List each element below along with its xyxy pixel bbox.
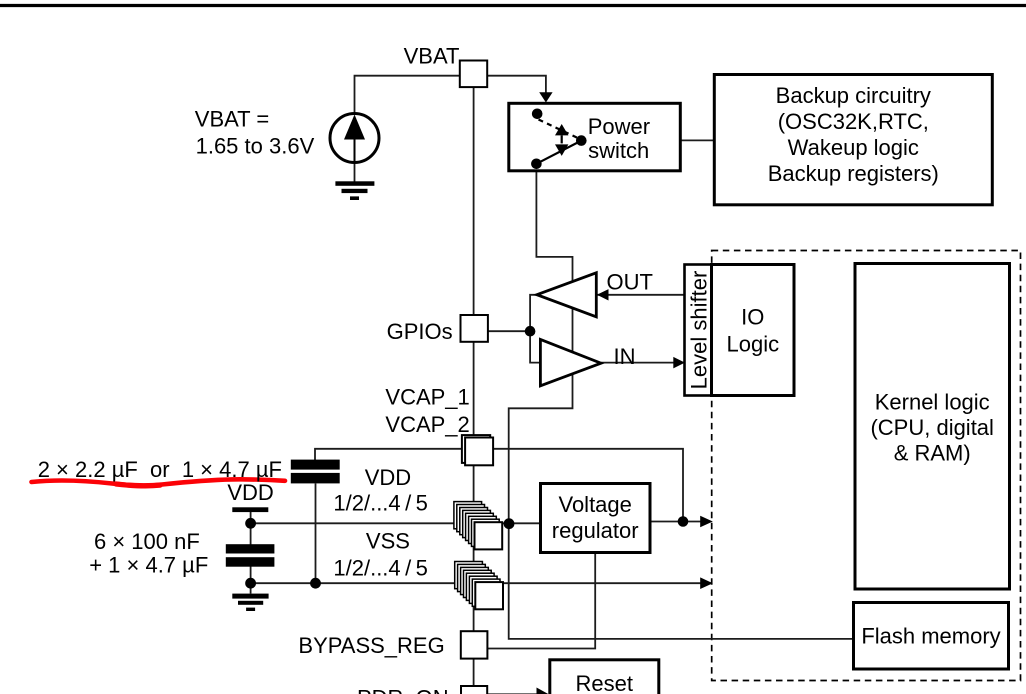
- svg-text:& RAM): & RAM): [894, 441, 971, 466]
- voltage regulator box: [541, 484, 651, 553]
- svg-text:6 × 100 nF: 6 × 100 nF: [94, 529, 200, 554]
- wire VBAT pin to power switch arrow: [488, 76, 546, 99]
- IO logic box: [712, 265, 795, 396]
- wire main pin column: [473, 87, 475, 694]
- svg-text:2 × 2.2 µF or 1 × 4.7 µF: 2 × 2.2 µF or 1 × 4.7 µF: [38, 457, 282, 482]
- power switch box: [509, 103, 681, 171]
- wire VDD rail line: [251, 522, 541, 524]
- junction dot VDD/cap: [245, 518, 256, 529]
- svg-text:OUT: OUT: [607, 270, 653, 295]
- svg-text:Power: Power: [588, 114, 650, 139]
- wire regulator output to kernel arrow: [650, 521, 711, 523]
- svg-text:VSS: VSS: [366, 529, 410, 554]
- svg-text:Kernel logic: Kernel logic: [875, 390, 990, 415]
- arrow VDD into kernel: [700, 516, 713, 528]
- VDD rail bar: [232, 507, 268, 512]
- wire PDR_ON to reset arrow: [488, 693, 537, 694]
- pin PDR_ON: [461, 686, 487, 694]
- svg-text:Level shifter: Level shifter: [687, 271, 712, 390]
- svg-text:VDD: VDD: [227, 480, 273, 505]
- svg-text:(CPU, digital: (CPU, digital: [870, 415, 993, 440]
- capacitor 6x100nF: [226, 544, 275, 567]
- svg-text:IO: IO: [741, 305, 764, 330]
- current source VBAT: [330, 114, 379, 163]
- junction dot regulator out/VCAP: [678, 516, 689, 527]
- arrow into power switch top: [539, 92, 552, 102]
- dashed device boundary box: [712, 251, 1021, 681]
- wire 2.2uF cap to VCAP pin: [315, 449, 462, 460]
- ground (100nF cap): [232, 594, 268, 611]
- wire power switch bottom contact to VDD node: [509, 166, 573, 523]
- wire regulator bottom to BYPASS_REG: [488, 553, 595, 649]
- wire VSS line: [251, 582, 711, 584]
- arrow VSS into kernel: [700, 577, 713, 589]
- junction dot VDD/regulator: [504, 518, 515, 529]
- pin VCAP_1 (front square): [465, 438, 493, 466]
- wire VBAT source to ground: [354, 164, 356, 182]
- svg-text:VCAP_1: VCAP_1: [385, 385, 469, 410]
- svg-text:VBAT: VBAT: [404, 44, 460, 69]
- svg-text:GPIOs: GPIOs: [387, 319, 453, 344]
- svg-text:VDD: VDD: [365, 465, 411, 490]
- svg-text:switch: switch: [588, 138, 649, 163]
- svg-text:Backup circuitry: Backup circuitry: [776, 83, 931, 108]
- pin VCAP_2 (back square): [462, 435, 490, 463]
- ground (VBAT source): [335, 181, 374, 200]
- wire power switch to backup circuitry: [581, 139, 714, 141]
- svg-text:VCAP_2: VCAP_2: [385, 412, 469, 437]
- svg-text:+ 1 × 4.7 µF: + 1 × 4.7 µF: [89, 552, 208, 577]
- svg-text:regulator: regulator: [552, 518, 639, 543]
- wire VDD node down to flash memory: [509, 523, 854, 639]
- pin VBAT: [460, 61, 487, 88]
- junction dot VSS/2.2uF cap: [310, 578, 321, 589]
- pin BYPASS_REG: [461, 631, 488, 658]
- capacitor 2x2.2uF: [291, 460, 340, 484]
- wire buffers junction vertical: [530, 295, 540, 363]
- svg-text:Voltage: Voltage: [558, 492, 631, 517]
- junction dot GPIO/buffers: [525, 326, 536, 337]
- svg-text:(OSC32K,RTC,: (OSC32K,RTC,: [778, 109, 929, 134]
- svg-text:Logic: Logic: [727, 332, 780, 357]
- power switch dashed throw: [539, 120, 578, 138]
- lower buffer triangle (input driver): [540, 339, 601, 385]
- upper buffer triangle (output driver): [537, 273, 596, 317]
- reset box: [550, 660, 659, 694]
- kernel logic box: [855, 264, 1010, 590]
- svg-text:1/2/...4 / 5: 1/2/...4 / 5: [333, 555, 427, 580]
- arrow OUT into upper buffer: [597, 289, 609, 300]
- power switch bottom contact dot: [531, 159, 542, 170]
- wire GPIO pin to buffers junction: [488, 330, 530, 332]
- svg-text:Flash memory: Flash memory: [861, 624, 1000, 649]
- wire IN to level shifter: [601, 362, 685, 364]
- red annotation underline: [32, 479, 286, 485]
- svg-text:Reset: Reset: [576, 671, 633, 694]
- pin stack VSS 1/2/...4/5: [455, 562, 503, 610]
- wire VCAP pin to regulator output: [493, 449, 683, 522]
- svg-text:VBAT =: VBAT =: [195, 106, 269, 131]
- svg-text:Backup registers): Backup registers): [768, 161, 939, 186]
- flash memory box: [854, 603, 1009, 670]
- page top rule: [0, 4, 1026, 7]
- svg-text:IN: IN: [614, 344, 636, 369]
- junction dot VSS/100nF cap: [245, 578, 256, 589]
- pin GPIOs: [461, 315, 488, 342]
- level shifter box: [685, 265, 712, 396]
- wire 100nF cap to ground: [250, 567, 252, 594]
- wire OUT from level shifter: [596, 294, 684, 296]
- svg-text:BYPASS_REG: BYPASS_REG: [298, 633, 444, 658]
- wire VBAT source to VBAT pin: [355, 76, 460, 112]
- backup circuitry box: [714, 75, 992, 205]
- wire VDD rail bar to cap: [250, 512, 252, 545]
- svg-text:Wakeup logic: Wakeup logic: [788, 135, 919, 160]
- svg-text:1/2/...4 / 5: 1/2/...4 / 5: [333, 491, 427, 516]
- power switch pivot dot: [576, 135, 587, 146]
- arrow into reset box: [537, 688, 549, 694]
- wire 2.2uF cap bottom to VSS: [315, 484, 317, 584]
- pin stack VDD 1/2/...4/5: [454, 502, 502, 550]
- svg-text:1.65 to 3.6V: 1.65 to 3.6V: [196, 134, 315, 159]
- svg-text:PDR_ON: PDR_ON: [357, 686, 449, 694]
- power switch top contact dot: [532, 109, 543, 120]
- power switch solid throw: [536, 141, 581, 164]
- arrow IN into level shifter: [673, 357, 685, 369]
- power switch toggle arrow: [555, 124, 568, 156]
